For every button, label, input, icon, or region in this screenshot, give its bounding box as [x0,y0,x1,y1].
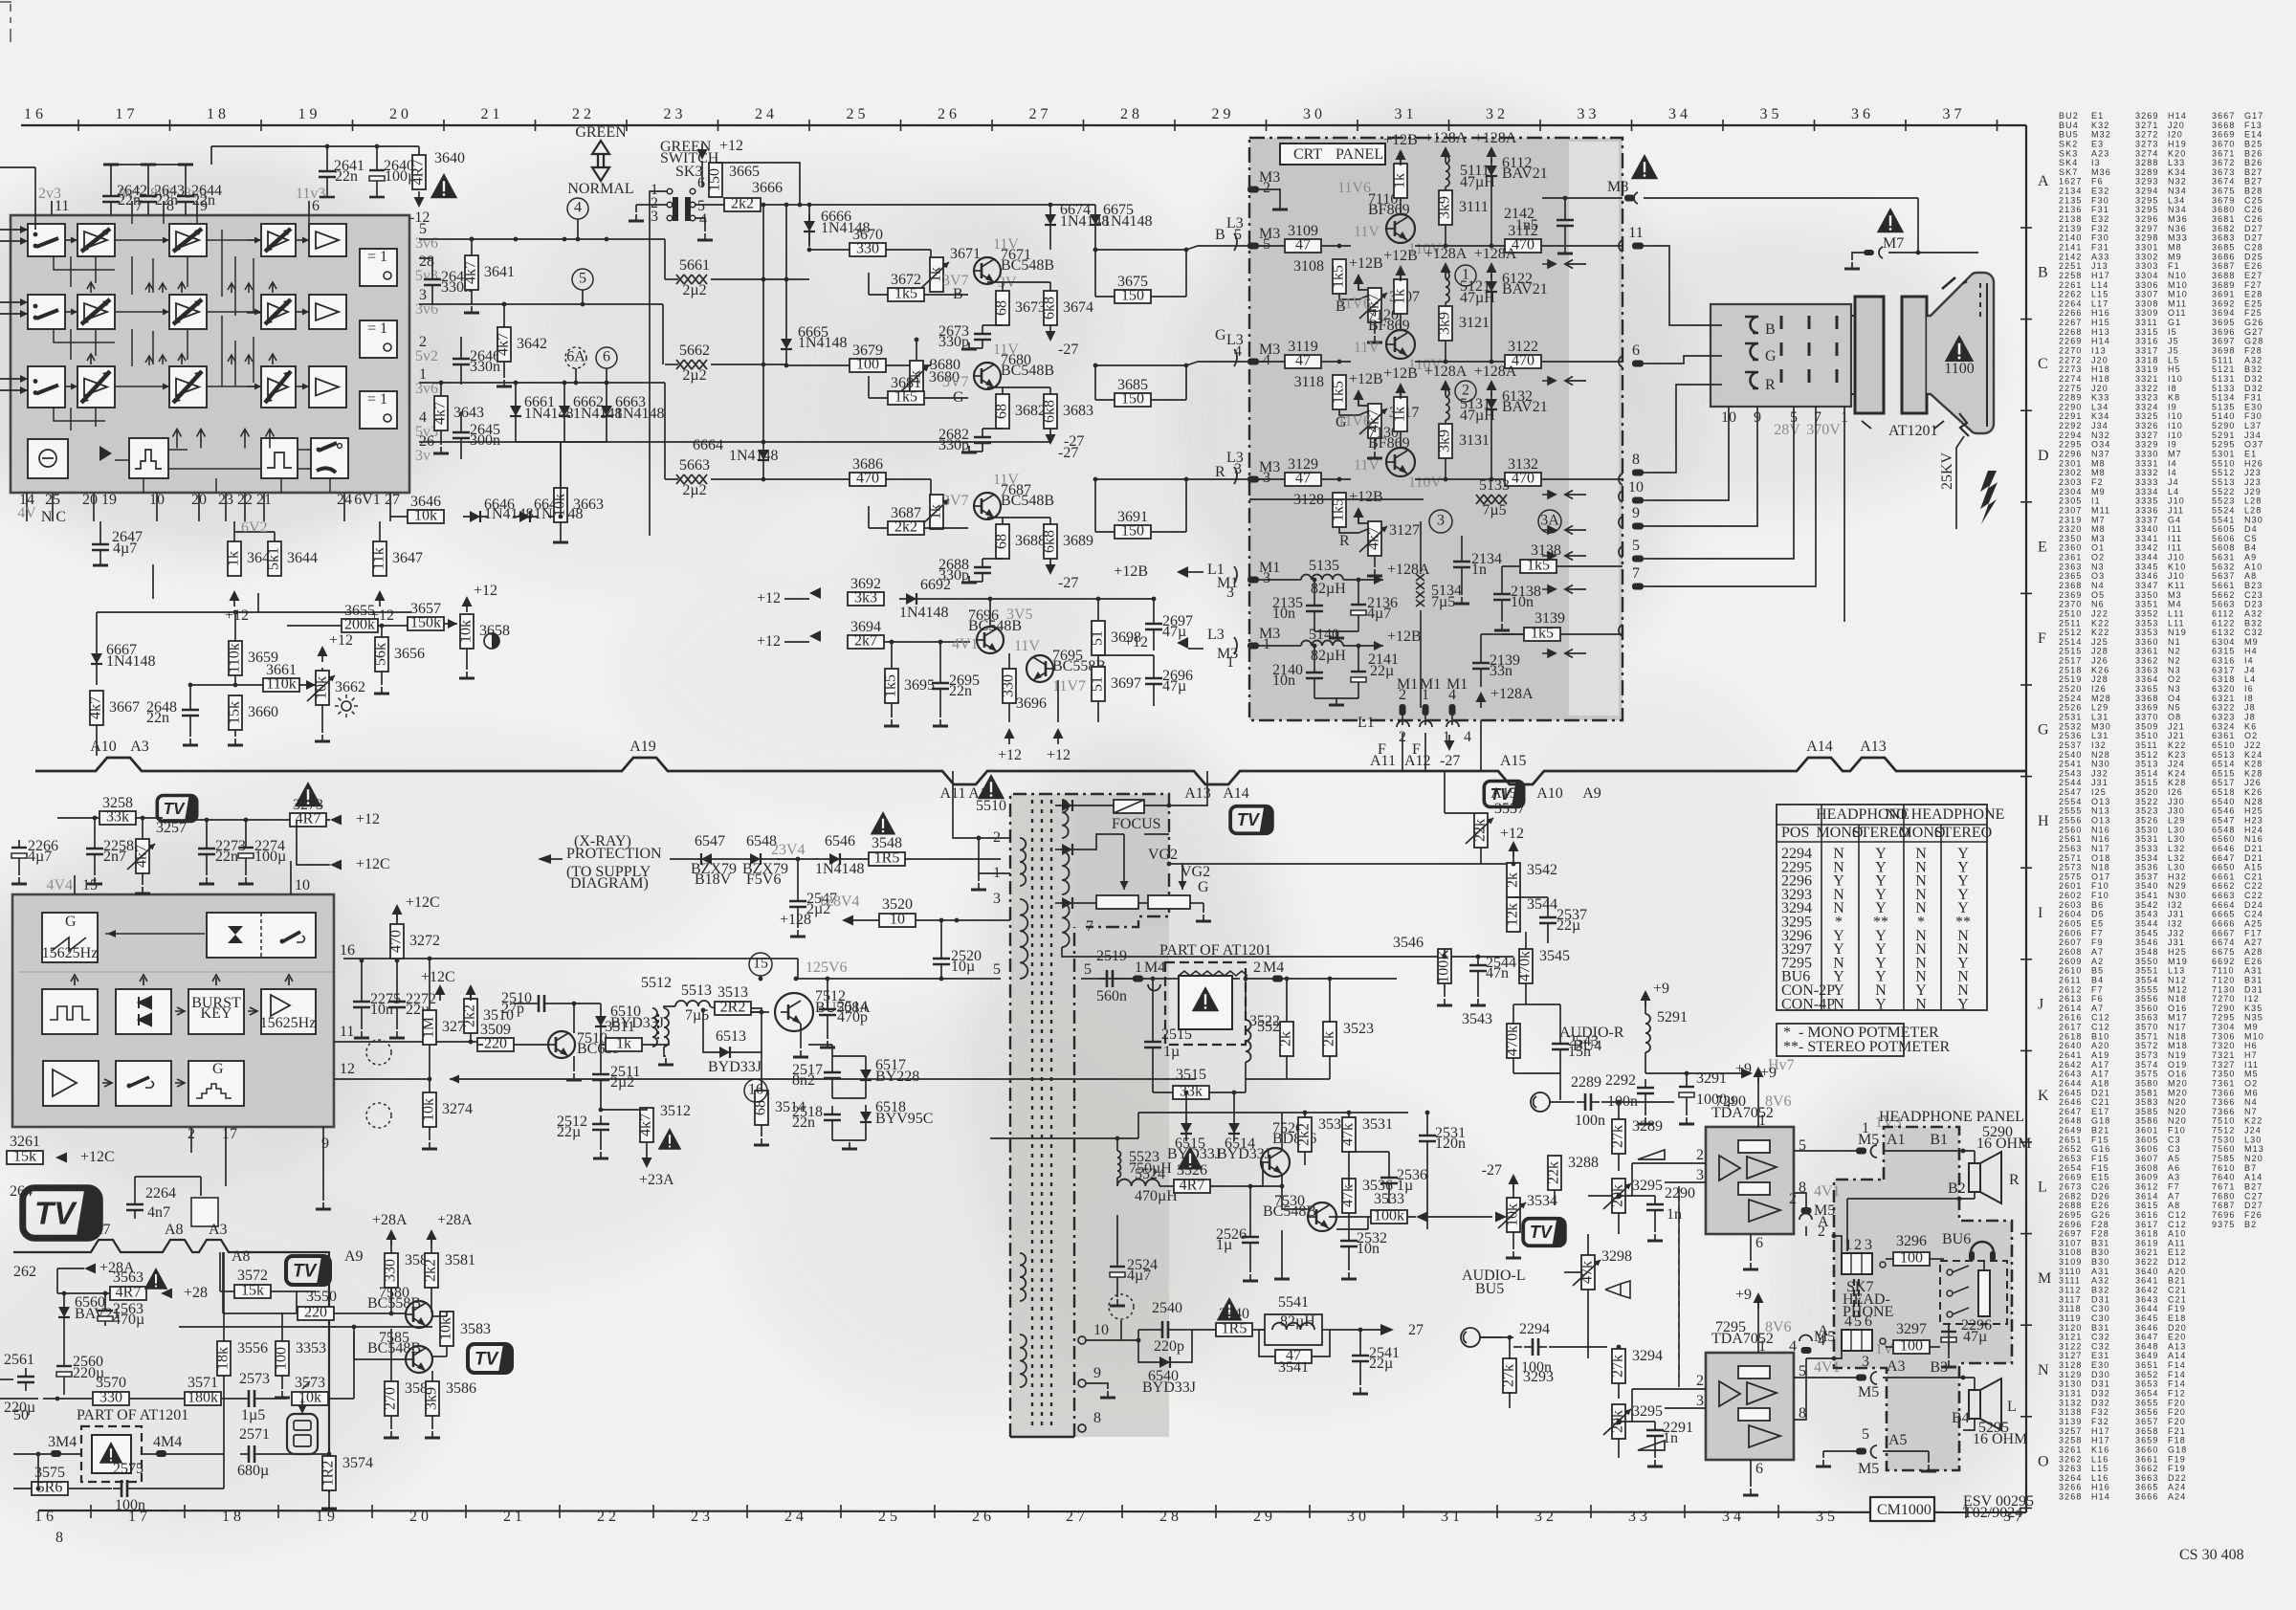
transistor 7687 [974,482,1054,519]
resistor 3687 [888,505,924,536]
capacitor 2520 [933,948,982,975]
svg-text:3: 3 [1865,1237,1872,1253]
svg-text:3351: 3351 [2135,600,2158,609]
svg-text:N32: N32 [2168,177,2187,187]
wire [245,863,247,875]
capacitor 2134 [1453,551,1502,578]
svg-text:T02/9024: T02/9024 [1963,1505,2022,1521]
svg-text:3647: 3647 [392,550,423,566]
svg-text:J23: J23 [2244,468,2262,477]
svg-text:3: 3 [1226,584,1234,601]
wire [1645,1102,1646,1115]
svg-text:F20: F20 [2168,1407,2186,1417]
inductor [1062,851,1070,894]
svg-text:7130: 7130 [2212,984,2235,994]
svg-text:L32: L32 [2168,853,2185,863]
wire [797,859,799,893]
signal arrows [1542,552,1586,561]
wire [376,186,378,197]
wire [1094,232,1096,250]
svg-text:N13: N13 [2091,806,2110,816]
svg-text:1N4148: 1N4148 [729,448,779,464]
xray arrow [538,854,551,864]
svg-text:K34: K34 [2168,167,2186,177]
svg-text:3533: 3533 [2135,844,2158,853]
wire [200,1177,202,1196]
signal arrows [1542,260,1586,269]
svg-text:17: 17 [222,1126,237,1142]
svg-text:3683: 3683 [2212,233,2235,243]
svg-text:N2: N2 [2168,647,2181,656]
wire [1374,556,1376,567]
svg-text:L37: L37 [2244,421,2262,430]
svg-text:M10: M10 [2168,280,2188,290]
wire [13,1453,51,1455]
svg-text:2531: 2531 [2059,713,2082,722]
svg-text:3347: 3347 [2135,581,2158,590]
svg-text:3131: 3131 [2059,1389,2082,1399]
svg-text:A28: A28 [2244,947,2263,957]
svg-text:E26: E26 [2244,957,2263,966]
resistor 3272 [388,924,441,959]
svg-text:220: 220 [484,1036,507,1052]
wire [63,1381,65,1395]
svg-text:3670: 3670 [2212,140,2235,149]
svg-text:AT1201: AT1201 [1888,423,1938,439]
capacitor 2517 [792,1062,841,1089]
svg-text:3686: 3686 [2212,252,2235,261]
wire [223,1376,225,1399]
svg-text:BC558B: BC558B [367,1295,421,1312]
svg-text:3340: 3340 [2135,524,2158,534]
wire [1654,1445,1656,1458]
svg-text:N4: N4 [2244,1097,2258,1107]
svg-text:H18: H18 [2091,364,2110,374]
svg-text:3556: 3556 [2135,994,2158,1003]
resistor 470k [1505,1024,1521,1058]
wire [166,1453,224,1455]
svg-text:22n: 22n [335,168,358,185]
resistor 1k [606,1036,642,1052]
svg-text:N35: N35 [2244,1013,2263,1023]
svg-text:3648: 3648 [2135,1341,2158,1351]
wire [1081,978,1240,980]
connector pin [1632,243,1651,250]
wire [582,290,584,304]
svg-text:I12: I12 [2244,994,2260,1003]
svg-text:5135: 5135 [2212,402,2235,411]
svg-text:H17: H17 [2091,1426,2110,1436]
svg-text:D32: D32 [2091,1389,2110,1399]
svg-text:3294: 3294 [2135,187,2158,196]
wire [563,383,565,399]
svg-text:5v3: 5v3 [415,268,438,284]
svg-text:3543: 3543 [1462,1011,1492,1027]
wire [1651,385,1722,473]
wire [432,1356,447,1357]
svg-text:K: K [2038,1088,2049,1104]
wire [19,971,334,973]
svg-text:M: M [2038,1270,2051,1287]
wire [1654,1421,1656,1423]
svg-text:6322: 6322 [2212,703,2235,713]
svg-text:3544: 3544 [2135,919,2158,929]
svg-text:B31: B31 [2091,1238,2109,1247]
IC U1 amplifier cell r3c4 [261,366,296,408]
svg-text:F: F [2038,630,2046,647]
svg-text:I9: I9 [2168,440,2177,450]
svg-text:F15: F15 [2091,1163,2109,1173]
svg-text:2268: 2268 [2059,327,2082,337]
svg-text:H14: H14 [2168,111,2187,121]
wire [868,273,870,295]
wire [1121,978,1144,980]
svg-text:2k7: 2k7 [854,633,877,650]
svg-text:51: 51 [1090,630,1106,646]
wire [1151,296,1186,298]
svg-text:8: 8 [1093,1410,1101,1426]
wire [1400,393,1402,397]
resistor 3129 [1285,456,1321,487]
svg-text:L28: L28 [2244,496,2262,506]
svg-text:3316: 3316 [2135,337,2158,346]
svg-text:3575: 3575 [2135,1070,2158,1079]
test point 1 [1455,265,1476,286]
svg-text:+128: +128 [780,912,811,928]
svg-text:N34: N34 [2168,205,2187,214]
wire [1806,1357,1834,1359]
svg-text:6546: 6546 [2212,806,2235,816]
IC U2 internal arrows [105,933,205,935]
wire [979,873,1010,881]
svg-text:3129: 3129 [2059,1370,2082,1379]
svg-text:10: 10 [890,912,905,928]
svg-text:3324: 3324 [2135,402,2158,411]
svg-text:3651: 3651 [2135,1360,2158,1370]
svg-text:3696: 3696 [2212,327,2235,337]
wire [13,1488,32,1489]
wire [1049,232,1051,250]
svg-text:D21: D21 [2244,844,2263,853]
wire [233,521,235,541]
svg-text:SK2: SK2 [2059,140,2078,149]
svg-text:B27: B27 [2244,177,2263,187]
svg-text:5R6: 5R6 [37,1480,63,1496]
wire [1948,1347,1950,1358]
capacitor 2648 [146,699,199,726]
wire [1186,478,1249,480]
svg-text:2554: 2554 [2059,797,2082,806]
svg-text:3295: 3295 [2135,205,2158,214]
svg-text:300n: 300n [470,432,500,449]
svg-text:3295: 3295 [1632,1403,1663,1420]
svg-text:2319: 2319 [2059,515,2082,524]
supply [1046,429,1056,445]
wire [1526,1003,1560,1005]
svg-text:100k: 100k [1374,1208,1404,1224]
svg-text:PROTECTION: PROTECTION [566,846,662,862]
svg-text:H16: H16 [2091,308,2110,318]
svg-text:3130: 3130 [2059,1379,2082,1389]
svg-text:O19: O19 [2168,1060,2187,1070]
resistor 10k [438,1312,454,1346]
wire [471,239,473,255]
svg-text:3127: 3127 [1389,522,1420,539]
svg-text:47k: 47k [1340,1184,1357,1207]
svg-text:6647: 6647 [2212,853,2235,863]
capacitor 2139 [1472,652,1520,679]
wire [636,204,667,206]
svg-text:2368: 2368 [2059,581,2082,590]
wire [763,441,1024,443]
wire [516,441,607,443]
wire [573,1022,575,1033]
svg-text:1 8: 1 8 [207,106,226,122]
svg-text:3121: 3121 [2059,1333,2082,1342]
svg-text:3295: 3295 [1632,1178,1663,1194]
svg-text:3563: 3563 [2135,1013,2158,1023]
svg-text:1: 1 [1422,687,1429,703]
wire [1427,1216,1492,1218]
svg-text:3322: 3322 [2135,384,2158,393]
svg-text:3269: 3269 [2135,111,2158,121]
svg-text:5523: 5523 [2212,496,2235,506]
svg-text:K22: K22 [2168,740,2186,750]
svg-text:F5V6: F5V6 [746,871,781,888]
svg-text:3 2: 3 2 [1534,1509,1554,1525]
ground [316,1202,331,1209]
wire [245,820,247,840]
wire [761,1012,762,1091]
wire [1049,205,1051,208]
svg-text:3643: 3643 [2135,1294,2158,1304]
wire [1250,1185,1282,1187]
test point [366,1103,391,1128]
svg-text:470µ: 470µ [113,1312,144,1328]
svg-text:5632: 5632 [2212,562,2235,571]
resistor 2k [1278,1022,1294,1056]
svg-text:110V: 110V [1408,474,1442,491]
svg-text:7680: 7680 [2212,1191,2235,1201]
svg-text:L: L [2007,1399,2017,1415]
supply +12 [225,590,249,624]
wire [430,1288,432,1312]
svg-text:R: R [2009,1172,2020,1188]
svg-text:M4: M4 [55,1434,77,1450]
svg-text:H23: H23 [2244,816,2263,826]
wire [234,612,236,641]
wire [1314,687,1315,698]
svg-text:2518: 2518 [2059,665,2082,674]
svg-text:3663: 3663 [2135,1473,2158,1483]
svg-text:1N4148: 1N4148 [1103,213,1153,230]
small box [191,1198,218,1226]
svg-text:N16: N16 [2091,825,2110,834]
svg-text:10k: 10k [458,620,475,643]
wire [548,516,561,518]
svg-text:2289: 2289 [2059,393,2082,403]
svg-text:1 8: 1 8 [222,1509,241,1525]
wire [328,1490,330,1502]
wire [63,1293,65,1300]
wire [1480,1336,1513,1338]
wire [1480,634,1482,654]
wire [1686,1073,1688,1079]
wire [1490,417,1492,479]
resistor 180k [185,1390,221,1406]
wire [1794,1358,1806,1420]
svg-text:100K: 100K [1436,949,1452,983]
svg-text:330n: 330n [470,359,500,375]
test point 16 [744,1079,767,1102]
wire [1358,284,1368,290]
svg-text:3601: 3601 [2135,1126,2158,1136]
svg-text:HEADPHONE PANEL: HEADPHONE PANEL [1879,1109,2024,1125]
svg-text:PART OF AT1201: PART OF AT1201 [1159,942,1271,959]
capacitor 2273 [198,838,246,865]
svg-text:3352: 3352 [2135,609,2158,619]
svg-text:3363: 3363 [2135,665,2158,674]
svg-text:6361: 6361 [2212,731,2235,740]
wire [96,612,98,647]
svg-text:3534: 3534 [1527,1193,1557,1209]
svg-text:3618: 3618 [2135,1229,2158,1239]
frame top border [21,124,2026,126]
svg-text:5135: 5135 [1309,558,1339,574]
wire [635,205,637,212]
svg-text:9: 9 [1093,1365,1101,1381]
wire [1512,1004,1514,1024]
svg-text:100µ: 100µ [254,849,286,865]
wire [1095,478,1186,480]
svg-text:J10: J10 [2168,571,2185,581]
svg-text:2138: 2138 [2059,214,2082,224]
svg-text:BC548B: BC548B [1001,363,1054,379]
resistor 2k [1505,863,1521,897]
wire [96,672,98,685]
wire [1138,1329,1154,1331]
svg-text:2301: 2301 [2059,458,2082,468]
svg-text:M7: M7 [2168,450,2182,459]
svg-text:H4: H4 [2244,647,2258,656]
wire [1322,1329,1330,1331]
svg-text:O: O [2038,1453,2049,1469]
svg-text:5661: 5661 [679,257,710,274]
wire [982,428,1003,430]
capacitor 2514 [819,999,868,1026]
wire [1445,187,1446,190]
capacitor [17,1368,34,1391]
svg-text:B7: B7 [2244,1163,2257,1173]
svg-text:A6: A6 [2168,1163,2180,1173]
svg-text:N20: N20 [2168,1116,2187,1126]
svg-text:3545: 3545 [2135,928,2158,937]
wire [1094,479,1096,532]
resistor 3685 [1115,377,1151,408]
svg-text:3 3: 3 3 [1578,106,1597,122]
svg-text:1N4148: 1N4148 [106,653,156,670]
wire dashed [1678,1186,1680,1387]
svg-text:C30: C30 [2091,1313,2110,1323]
svg-text:22µ: 22µ [1370,663,1394,679]
connector pin [1247,243,1267,250]
connector pin [1632,497,1651,504]
wire [1181,864,1183,890]
connector block 456 [1842,1330,1872,1351]
wire [57,1268,84,1269]
svg-text:+128A: +128A [1424,130,1468,146]
IC U1 amplifier cell r1c3 [169,224,207,256]
diode [1228,1116,1240,1141]
svg-text:6560: 6560 [2212,834,2235,844]
svg-text:7512: 7512 [2212,1126,2235,1136]
wire [390,1416,392,1429]
svg-text:5663: 5663 [2212,600,2235,609]
svg-text:7560: 7560 [2212,1144,2235,1154]
svg-text:2: 2 [1854,1237,1862,1253]
wire [189,685,191,701]
wire [1564,198,1566,211]
svg-text:2290: 2290 [1665,1185,1695,1202]
wire [460,337,462,350]
svg-text:3325: 3325 [2135,411,2158,421]
ground [961,446,977,452]
wire [1185,479,1187,532]
wire [1314,646,1315,664]
svg-text:5662: 5662 [679,342,710,359]
svg-text:B: B [1215,227,1225,243]
svg-text:K24: K24 [2244,750,2263,760]
svg-text:7320: 7320 [2212,1041,2235,1050]
connector M7 [1864,250,1874,255]
wire [1249,245,1285,247]
resistor 1k5 [1331,259,1347,294]
svg-text:3572: 3572 [2135,1041,2158,1050]
svg-text:A19: A19 [629,739,656,755]
svg-text:4n7: 4n7 [147,1204,170,1221]
svg-text:J26: J26 [2244,778,2262,787]
svg-text:2k2: 2k2 [1296,1123,1313,1146]
svg-text:3698: 3698 [2212,346,2235,356]
svg-text:J29: J29 [2244,487,2262,496]
svg-text:6692: 6692 [920,577,951,593]
svg-text:1n: 1n [1471,562,1487,578]
wire [797,959,799,979]
wire [1618,1213,1620,1234]
svg-text:1: 1 [1263,636,1270,652]
svg-text:330: 330 [383,1259,399,1282]
svg-text:D27: D27 [2244,233,2263,243]
svg-text:3581: 3581 [445,1252,475,1268]
svg-text:3574: 3574 [2135,1060,2158,1070]
wire rail to flyback5 [794,977,799,981]
CRT gun G [1745,343,1758,360]
wire [990,1137,1138,1139]
wire [147,165,149,187]
svg-text:M4: M4 [1144,959,1165,976]
wire [1618,1102,1620,1119]
diode [823,853,848,865]
ferrite bead 5662 [676,342,710,384]
svg-text:2291: 2291 [2059,411,2082,421]
wire [222,1252,224,1313]
wire [290,861,292,894]
svg-text:3333: 3333 [2135,477,2158,487]
svg-text:3679: 3679 [2212,195,2235,205]
wire [1359,1330,1361,1347]
svg-text:2526: 2526 [2059,703,2082,713]
svg-text:7290: 7290 [2212,1003,2235,1013]
